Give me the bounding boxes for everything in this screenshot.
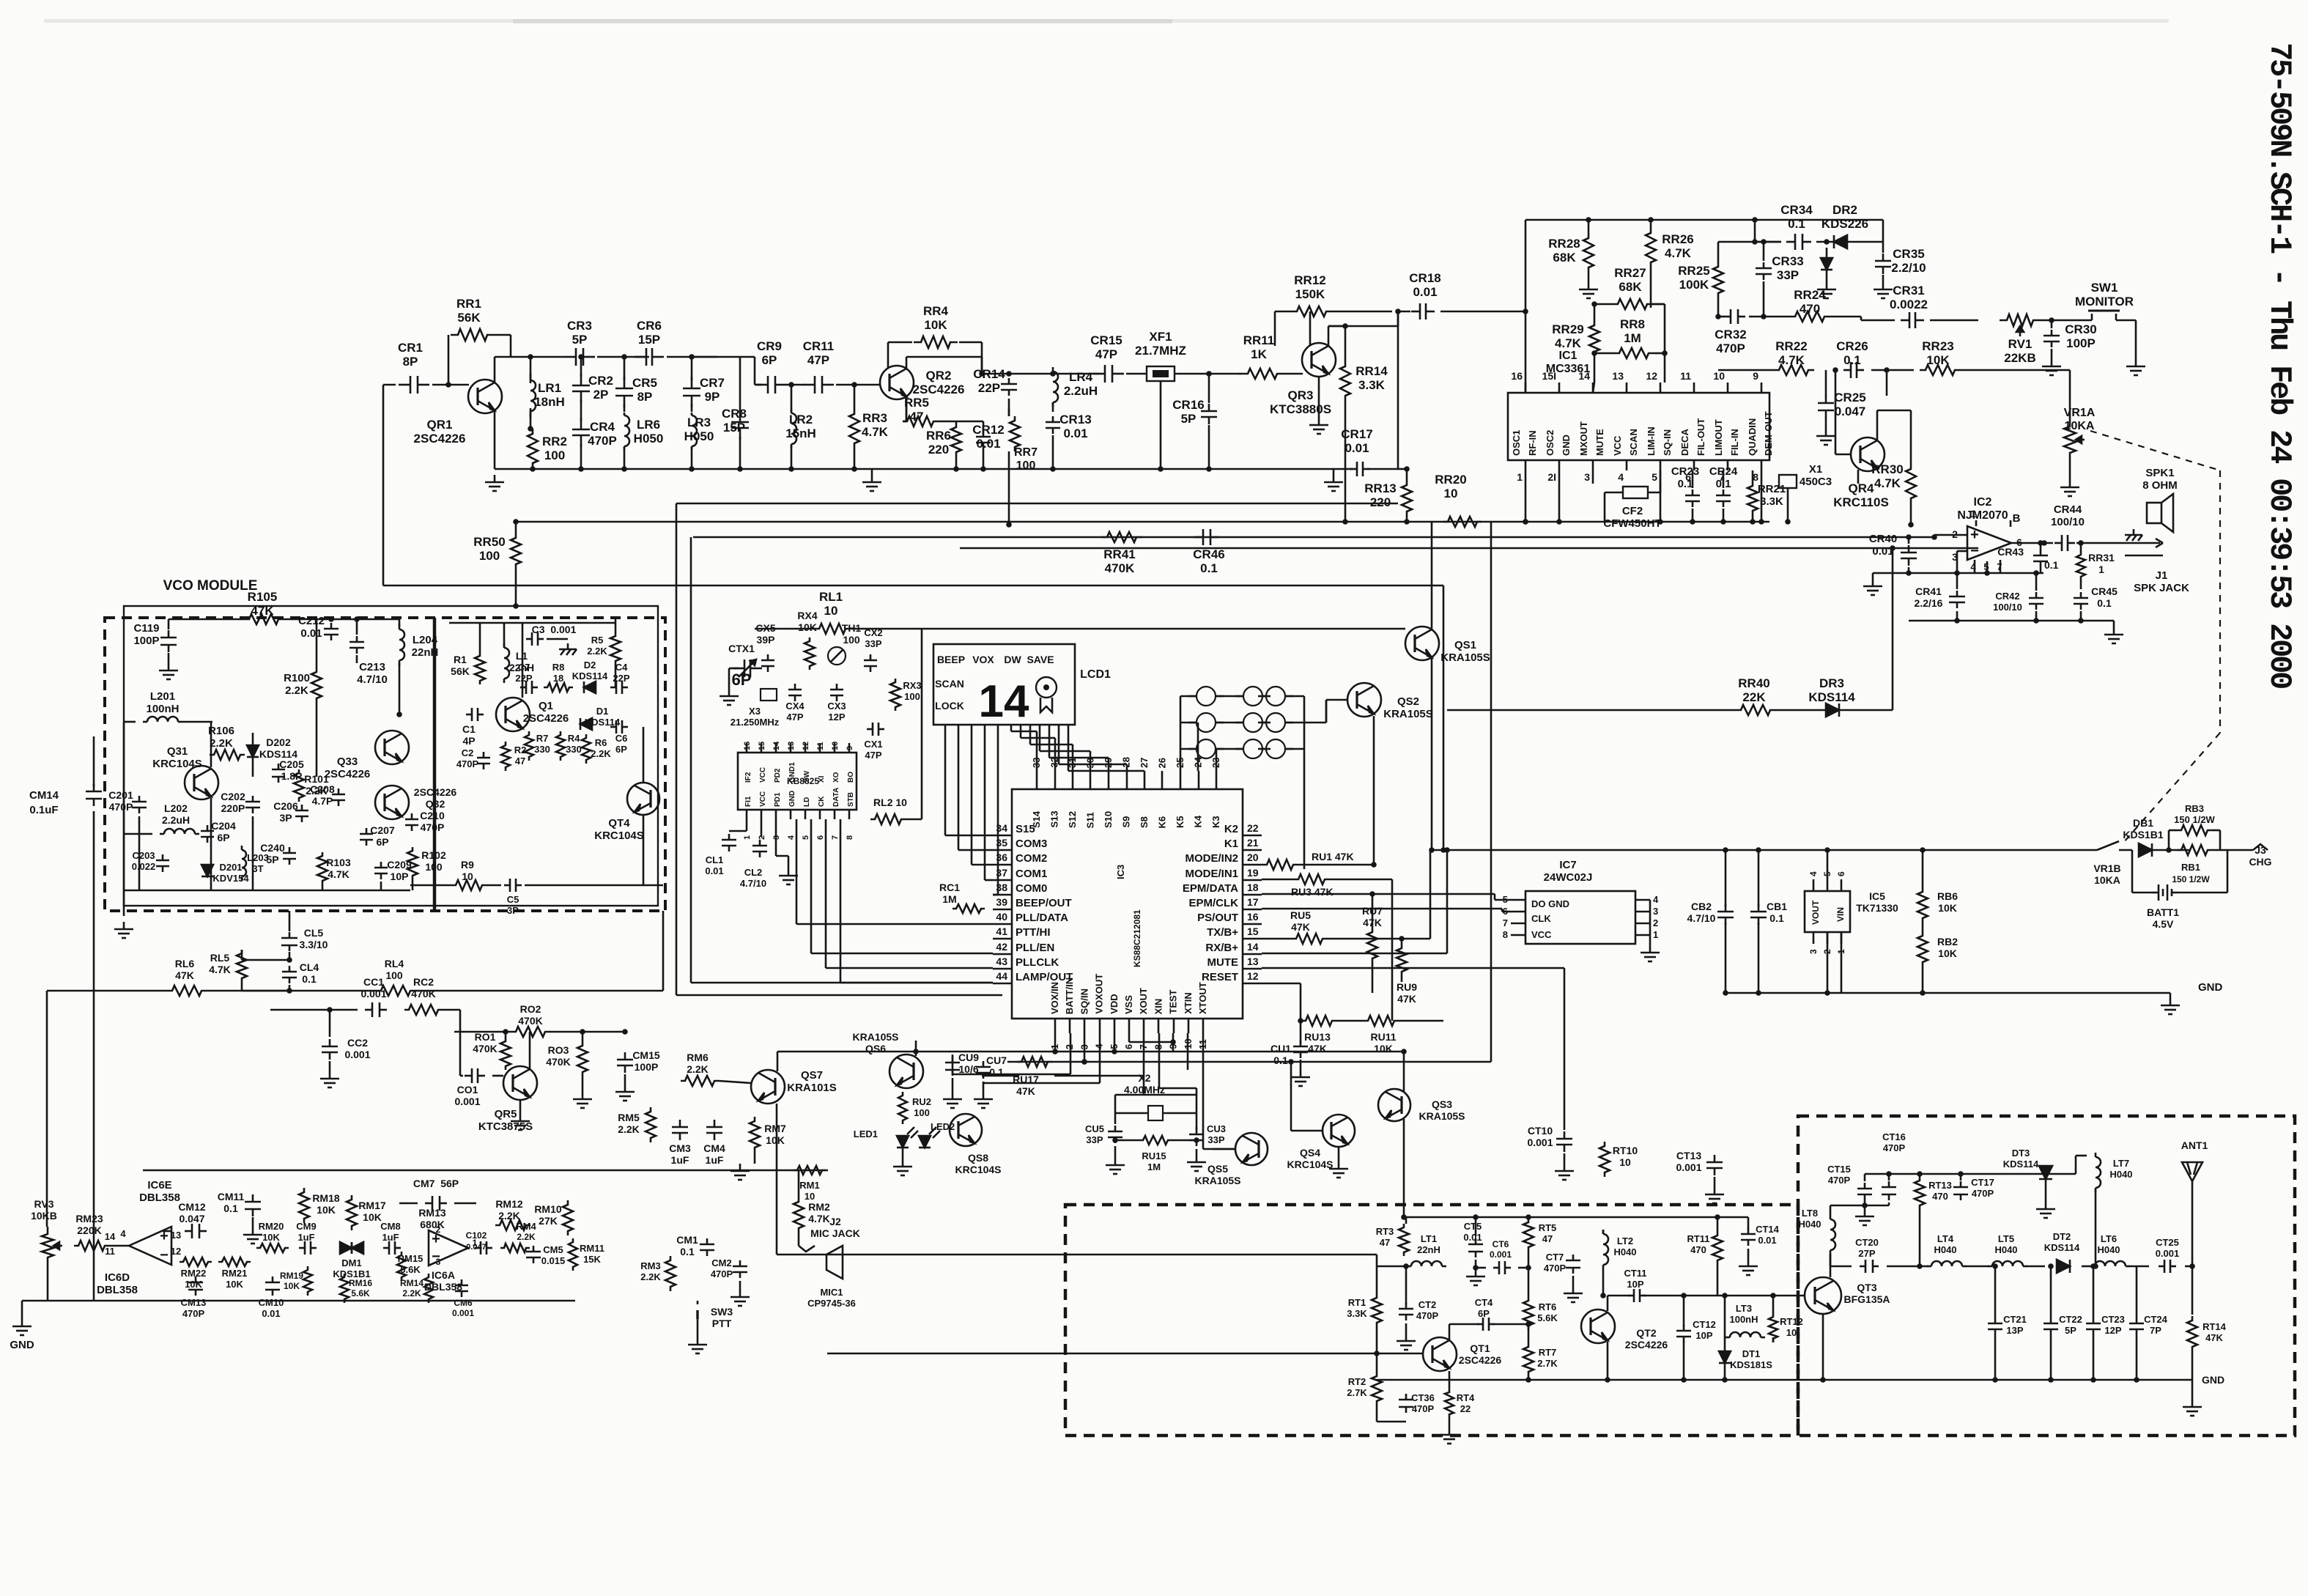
wire CT12 DT1 RT12 columns <box>1683 1296 1685 1326</box>
svg-text:RV1: RV1 <box>2008 337 2033 351</box>
svg-text:BEEP/OUT: BEEP/OUT <box>1016 897 1072 909</box>
svg-text:K2: K2 <box>1224 823 1238 835</box>
wire trunk y687 <box>676 503 1398 505</box>
svg-text:DB1: DB1 <box>2133 817 2153 829</box>
svg-text:GND: GND <box>2198 981 2223 994</box>
svg-text:L1: L1 <box>516 650 528 662</box>
svg-text:VR1A: VR1A <box>2064 407 2096 419</box>
svg-text:RESET: RESET <box>1202 971 1238 983</box>
svg-text:CT7: CT7 <box>1546 1252 1564 1263</box>
svg-text:KRC104S: KRC104S <box>152 758 202 770</box>
svg-text:2SC4226: 2SC4226 <box>1625 1339 1668 1351</box>
svg-text:21.7MHZ: 21.7MHZ <box>1135 344 1186 358</box>
svg-text:35: 35 <box>996 837 1007 849</box>
svg-text:RR14: RR14 <box>1355 364 1388 378</box>
svg-text:47: 47 <box>515 755 525 766</box>
wire long bus y733 <box>693 536 1934 539</box>
wire CC1 left <box>329 1010 331 1037</box>
svg-text:6P: 6P <box>762 353 777 367</box>
resistor RR31 <box>2076 551 2085 580</box>
capacitor CR6 <box>635 356 646 358</box>
wire Q31 emitter <box>210 798 212 890</box>
svg-text:Q33: Q33 <box>337 755 358 768</box>
IF2 pin 15 <box>761 743 763 753</box>
wire IC2 output <box>2011 542 2053 544</box>
svg-text:J3: J3 <box>2255 844 2266 856</box>
svg-text:0.01: 0.01 <box>262 1308 280 1319</box>
svg-text:100K: 100K <box>1679 278 1709 292</box>
resistor RL5 <box>237 950 247 982</box>
svg-text:4.7K: 4.7K <box>1555 336 1582 350</box>
svg-text:LR4: LR4 <box>1069 370 1093 384</box>
svg-text:10K: 10K <box>798 621 817 633</box>
resistor RU7 <box>1367 928 1377 963</box>
svg-text:18nH: 18nH <box>534 395 565 409</box>
svg-text:470P: 470P <box>1716 341 1745 355</box>
svg-text:47: 47 <box>910 410 924 424</box>
diode DR2 KDS226 <box>1834 235 1847 248</box>
svg-text:PD1: PD1 <box>774 792 782 807</box>
svg-text:0.001: 0.001 <box>452 1308 474 1318</box>
wires box A internals <box>1405 1217 1408 1224</box>
transistor QR2 2SC4226 <box>880 366 914 399</box>
wire IC2 bottom bus <box>1909 620 2114 622</box>
svg-text:3P: 3P <box>507 905 519 916</box>
wire trunk x923 down <box>676 503 678 995</box>
svg-text:CT13: CT13 <box>1676 1150 1701 1161</box>
capacitor CM13 <box>195 1277 197 1282</box>
wire PA output bus <box>1887 1266 1928 1268</box>
svg-text:10KA: 10KA <box>2065 420 2095 432</box>
resistor RR14 <box>1340 361 1350 402</box>
svg-text:47P: 47P <box>1095 347 1117 361</box>
wires IC1 bottom pins to bus y712 <box>1525 470 1527 522</box>
IC3 pin 4 VOXOUT <box>1099 1019 1101 1033</box>
resistor RX3 <box>890 679 900 711</box>
svg-text:VCO MODULE: VCO MODULE <box>163 578 258 594</box>
svg-text:47P: 47P <box>865 750 881 761</box>
resistor RR40 <box>1735 705 1776 715</box>
IC5 pin 5 <box>1827 879 1829 891</box>
crystal X1 450C3 <box>1779 475 1797 488</box>
svg-text:CT21: CT21 <box>2003 1314 2027 1325</box>
transistor QS8 KRC104S <box>950 1114 982 1146</box>
svg-text:IC6D: IC6D <box>105 1271 130 1284</box>
svg-text:10K: 10K <box>317 1204 336 1216</box>
svg-text:CM9: CM9 <box>296 1221 316 1232</box>
capacitor CM6 <box>461 1279 463 1285</box>
wire long bus y748 <box>960 547 1978 550</box>
svg-text:6P: 6P <box>732 670 752 689</box>
wire EPM/CLK to IC7 <box>1262 908 1502 910</box>
ground rail IC2 <box>1872 579 1874 586</box>
LED2 <box>919 1136 931 1148</box>
svg-text:100nH: 100nH <box>1729 1314 1758 1325</box>
svg-text:44: 44 <box>996 970 1007 982</box>
svg-text:220K: 220K <box>77 1224 101 1236</box>
svg-text:39P: 39P <box>757 634 775 646</box>
svg-text:QR1: QR1 <box>427 418 453 432</box>
svg-text:CC2: CC2 <box>347 1037 368 1049</box>
resistor RU15 <box>1139 1136 1172 1145</box>
ground QR3 <box>1318 418 1320 425</box>
svg-text:C212: C212 <box>298 615 325 627</box>
svg-text:C102: C102 <box>466 1230 487 1241</box>
svg-text:470P: 470P <box>1972 1188 1994 1199</box>
wire IC1 pin3 to y748 <box>1592 470 1594 484</box>
svg-text:COM2: COM2 <box>1016 852 1047 865</box>
resistor R103 <box>317 852 328 884</box>
svg-text:4.7K: 4.7K <box>328 868 349 880</box>
resistor RR25 <box>1713 262 1723 298</box>
resistor RT11 <box>1712 1232 1723 1264</box>
svg-text:VCC: VCC <box>759 767 767 783</box>
svg-text:RT4: RT4 <box>1457 1392 1475 1403</box>
svg-text:18: 18 <box>553 673 563 684</box>
svg-text:QR3: QR3 <box>1288 388 1314 402</box>
IC3 pin 6 VSS <box>1128 1019 1131 1033</box>
svg-text:KDV154: KDV154 <box>212 873 249 884</box>
svg-text:18: 18 <box>1247 882 1259 893</box>
svg-text:5: 5 <box>1503 894 1508 905</box>
resistor RR5 <box>903 416 938 426</box>
svg-text:CM2: CM2 <box>711 1257 731 1268</box>
svg-text:CR4: CR4 <box>590 420 615 434</box>
svg-text:RB6: RB6 <box>1937 890 1958 902</box>
svg-text:FIL-OUT: FIL-OUT <box>1695 418 1706 456</box>
svg-text:10: 10 <box>1786 1327 1797 1338</box>
svg-text:RX/B+: RX/B+ <box>1205 942 1238 954</box>
svg-text:SW1: SW1 <box>2091 281 2118 295</box>
svg-text:3.3K: 3.3K <box>1760 495 1783 508</box>
svg-text:14: 14 <box>105 1231 116 1242</box>
capacitor C209 <box>380 862 382 868</box>
svg-text:LT3: LT3 <box>1736 1303 1752 1314</box>
IC3 pin 1 VOX/IN <box>1054 1019 1057 1033</box>
IC1 pin 13 <box>1626 383 1628 393</box>
wire CT5 top <box>1475 1217 1477 1236</box>
svg-text:RX4: RX4 <box>797 610 817 621</box>
IC3 pin 2 BATT/IN <box>1069 1019 1071 1033</box>
capacitor CR43 <box>2040 550 2042 555</box>
svg-text:CR16: CR16 <box>1172 398 1204 412</box>
svg-text:RU11: RU11 <box>1370 1031 1396 1043</box>
svg-text:2SC4226: 2SC4226 <box>325 768 371 780</box>
svg-text:12P: 12P <box>2104 1325 2121 1336</box>
svg-text:100P: 100P <box>133 635 159 647</box>
svg-text:RR31: RR31 <box>2088 552 2115 564</box>
svg-text:RR24: RR24 <box>1794 288 1826 302</box>
IC1 pin 14 <box>1592 383 1594 393</box>
resistor R101 <box>294 769 304 802</box>
capacitor CM7 <box>425 1202 432 1205</box>
svg-text:47P: 47P <box>807 353 829 367</box>
transistor Q31 KRC104S <box>185 766 218 799</box>
svg-text:CT22: CT22 <box>2059 1314 2082 1325</box>
svg-text:RR28: RR28 <box>1548 237 1580 251</box>
wire QS2 emitter down to RU1 <box>1373 716 1375 865</box>
svg-text:CR35: CR35 <box>1893 247 1924 261</box>
wire CT14 top <box>1747 1217 1750 1230</box>
capacitor CT6 <box>1493 1267 1499 1269</box>
wire QR4 emitter <box>1857 470 1860 484</box>
svg-text:100: 100 <box>385 969 403 981</box>
svg-text:RR7: RR7 <box>1014 446 1038 459</box>
wire QS3 collector <box>1403 1052 1405 1092</box>
svg-text:220: 220 <box>928 443 949 457</box>
resistor RB3 <box>2177 825 2212 835</box>
resistor RR50 <box>511 533 521 569</box>
IC1 pin 10 <box>1727 383 1729 393</box>
svg-text:68K: 68K <box>1619 280 1642 294</box>
svg-text:RM5: RM5 <box>618 1112 640 1123</box>
svg-text:RR4: RR4 <box>923 304 949 318</box>
ground PA <box>2192 1400 2194 1407</box>
IC3 pin 9 TEST <box>1173 1019 1175 1033</box>
capacitor CU5 <box>1114 1126 1117 1131</box>
wire IF2 DATA to IC3 PLL/DATA <box>825 819 827 968</box>
inductor LT4 <box>1927 1266 1931 1268</box>
svg-text:10K: 10K <box>284 1281 300 1291</box>
svg-text:12: 12 <box>171 1246 181 1257</box>
svg-text:BEEP: BEEP <box>937 654 965 665</box>
resistor R7 <box>525 731 533 761</box>
capacitor CT24 <box>2136 1318 2138 1323</box>
capacitor CX5 <box>767 654 769 660</box>
svg-text:VSS: VSS <box>1123 995 1134 1014</box>
svg-text:47K: 47K <box>1016 1085 1035 1097</box>
resistor RM12 <box>495 1220 530 1230</box>
svg-text:+: + <box>1970 527 1979 543</box>
IC7 pin 8 <box>1511 934 1525 936</box>
capacitor C119 <box>168 630 170 638</box>
svg-text:4.7P: 4.7P <box>312 795 333 807</box>
svg-text:PLLCLK: PLLCLK <box>1016 956 1059 969</box>
wires LCD staircase to IC3 top pins <box>1010 725 1013 731</box>
IC3 pin 35 COM3 <box>993 849 1012 851</box>
transistor QS3 KRA105S <box>1378 1089 1410 1121</box>
inductor LT7 <box>2095 1153 2097 1157</box>
wire QT2 collector <box>1607 1296 1609 1311</box>
svg-text:H050: H050 <box>634 432 664 446</box>
resistor RM6 <box>681 1076 719 1086</box>
svg-text:1uF: 1uF <box>706 1154 724 1166</box>
capacitor CM1 <box>706 1238 709 1244</box>
capacitor CM4 <box>714 1120 716 1127</box>
svg-text:15I: 15I <box>1542 370 1556 382</box>
svg-text:CR42: CR42 <box>1995 591 2019 602</box>
wire QR1 collector up <box>494 357 496 383</box>
wire R9 C5 line <box>525 884 663 887</box>
svg-text:SCAN: SCAN <box>1628 429 1639 456</box>
wire IC2 ground rail y782 <box>1873 572 2043 575</box>
capacitor CX1 <box>867 728 873 731</box>
wire CR14 to RR7 <box>1008 409 1010 416</box>
svg-text:0.022: 0.022 <box>132 861 156 872</box>
svg-text:CM5: CM5 <box>543 1244 563 1255</box>
IC3 pin 32 S13 <box>1054 771 1057 789</box>
keypad switch circle r1c0 <box>1196 713 1216 732</box>
svg-text:5P: 5P <box>1181 412 1196 426</box>
svg-text:100P: 100P <box>2066 336 2096 350</box>
wire node CR6-CR7 <box>667 356 717 358</box>
IC7 pin 5 <box>1511 899 1525 901</box>
wire QR1 emitter down to ground <box>494 410 496 469</box>
capacitor CM3 <box>679 1120 681 1127</box>
svg-text:17: 17 <box>1247 896 1259 908</box>
svg-text:13P: 13P <box>2006 1325 2023 1336</box>
IC3 pin 44 LAMP/OUT <box>993 983 1012 985</box>
svg-text:CL4: CL4 <box>300 961 319 973</box>
inductor L201 <box>143 721 147 723</box>
svg-text:100: 100 <box>1016 459 1036 472</box>
inductor L203 <box>241 846 243 850</box>
resistor RR4 feedback <box>887 342 889 369</box>
svg-text:CX1: CX1 <box>864 739 882 750</box>
wire node to CR18 <box>1398 311 1410 313</box>
ground CT14 <box>1747 1259 1750 1266</box>
capacitor CR17 <box>1350 468 1357 470</box>
svg-text:RM7: RM7 <box>764 1123 786 1134</box>
svg-text:RR41: RR41 <box>1103 547 1135 561</box>
svg-text:CR32: CR32 <box>1715 328 1746 341</box>
svg-text:56K: 56K <box>457 311 481 325</box>
svg-text:33P: 33P <box>865 638 881 649</box>
svg-text:TEST: TEST <box>1168 989 1179 1013</box>
resistor RM21 <box>218 1257 251 1266</box>
svg-text:S11: S11 <box>1085 812 1096 828</box>
IC3 pin 26 K6 <box>1161 771 1164 789</box>
svg-text:RL5: RL5 <box>210 952 230 964</box>
svg-text:33P: 33P <box>1207 1134 1224 1145</box>
resistor RM10 <box>563 1200 573 1235</box>
wire QS2 base left <box>1326 699 1348 701</box>
svg-text:CLK: CLK <box>1531 913 1551 924</box>
wire IC2 plus input <box>1934 534 1968 536</box>
svg-text:12: 12 <box>1247 970 1259 982</box>
svg-text:PS/OUT: PS/OUT <box>1197 912 1238 924</box>
svg-text:X3: X3 <box>749 706 761 717</box>
svg-text:34: 34 <box>996 822 1007 834</box>
svg-text:IC6E: IC6E <box>147 1179 171 1192</box>
svg-text:CT17: CT17 <box>1971 1177 1994 1188</box>
resistor RM3 <box>665 1256 676 1291</box>
svg-text:4.7K: 4.7K <box>1778 353 1805 367</box>
capacitor CO1 <box>465 1075 472 1077</box>
svg-text:8P: 8P <box>403 355 418 369</box>
wires IC2 bottom pins <box>1974 560 1976 573</box>
ground CR30 <box>2051 359 2053 366</box>
capacitor CR12 <box>983 429 985 437</box>
svg-text:11: 11 <box>816 742 825 750</box>
svg-text:RR27: RR27 <box>1614 266 1646 280</box>
wire XTIN XTOUT to QS5 <box>1202 1033 1205 1149</box>
wire top bus to CR9 <box>740 356 755 358</box>
svg-text:CR14: CR14 <box>973 367 1005 381</box>
svg-text:22: 22 <box>1460 1403 1471 1414</box>
transistor QR1 2SC4226 <box>468 380 502 413</box>
svg-text:CR8: CR8 <box>722 407 747 421</box>
svg-text:8: 8 <box>846 835 854 840</box>
svg-text:GND: GND <box>788 791 796 807</box>
svg-text:0.01: 0.01 <box>976 437 1000 451</box>
transistor Q33 2SC4226 <box>375 731 409 764</box>
svg-text:DEM-OUT: DEM-OUT <box>1763 411 1774 456</box>
resistor RU2 <box>898 1092 907 1124</box>
capacitor CR1 <box>399 384 410 386</box>
wire QR2 node to CR15 <box>1018 373 1099 375</box>
svg-text:CT11: CT11 <box>1624 1268 1646 1279</box>
svg-text:0.01: 0.01 <box>1345 441 1369 455</box>
svg-text:LR2: LR2 <box>789 413 813 426</box>
svg-text:CR46: CR46 <box>1193 547 1224 561</box>
trim capacitor CTX1 <box>733 668 744 670</box>
capacitor CR16 <box>1208 404 1210 411</box>
diode DT3 <box>2039 1166 2052 1179</box>
wire VCO bottom drops <box>138 816 141 890</box>
power rail y1160 <box>1430 849 2097 851</box>
capacitor C4 <box>610 687 616 689</box>
svg-text:D202: D202 <box>266 736 291 748</box>
VCO module dashed box <box>105 618 665 911</box>
svg-text:J1: J1 <box>2156 569 2168 582</box>
svg-text:R8: R8 <box>552 662 565 673</box>
capacitor CR45 <box>2080 592 2082 598</box>
resistor RT3 <box>1399 1224 1409 1256</box>
svg-text:CU1: CU1 <box>1270 1043 1291 1054</box>
svg-text:QS5: QS5 <box>1207 1163 1228 1175</box>
wire CR17 node vertical x1908 <box>1367 468 1398 470</box>
IC3 pin 25 K5 <box>1180 771 1182 789</box>
capacitor C212 <box>330 623 333 629</box>
capacitor CU9 <box>952 1057 954 1063</box>
svg-text:22K: 22K <box>1742 690 1766 704</box>
svg-text:Q1: Q1 <box>539 700 553 712</box>
LED1 <box>897 1136 909 1148</box>
svg-text:S10: S10 <box>1103 811 1114 828</box>
svg-text:CR1: CR1 <box>398 341 423 355</box>
svg-text:220: 220 <box>1370 495 1391 509</box>
svg-text:1K: 1K <box>1251 347 1267 361</box>
svg-text:S8: S8 <box>1139 816 1150 828</box>
svg-text:RL4: RL4 <box>385 958 404 969</box>
svg-text:27P: 27P <box>1858 1248 1875 1259</box>
svg-text:B: B <box>2013 512 2021 525</box>
svg-text:10P: 10P <box>1627 1279 1643 1290</box>
svg-text:CT10: CT10 <box>1528 1125 1553 1137</box>
svg-text:0.1: 0.1 <box>1200 561 1218 575</box>
svg-text:Q31: Q31 <box>167 745 188 758</box>
resistor RM19 <box>303 1266 312 1296</box>
svg-text:DATA: DATA <box>832 788 840 807</box>
resistor RR11 <box>1242 369 1283 379</box>
svg-text:C203: C203 <box>132 850 155 861</box>
svg-text:4.7/10: 4.7/10 <box>1687 912 1716 924</box>
ground C3 slash <box>567 643 569 649</box>
wire top rail to CR34 <box>1754 220 1756 242</box>
svg-text:RM2: RM2 <box>808 1201 830 1213</box>
VCO module outer solid box <box>124 606 658 906</box>
resistor RM7 <box>750 1117 760 1152</box>
ground CR35 <box>1882 282 1885 289</box>
svg-text:10K: 10K <box>766 1134 785 1146</box>
svg-text:38: 38 <box>996 882 1007 893</box>
IC5 pin 4 <box>1813 879 1815 891</box>
svg-text:C5: C5 <box>507 894 519 905</box>
wire QT3 emitter <box>1822 1314 1824 1380</box>
IC5 TK71330 box <box>1805 891 1850 932</box>
svg-text:RM12: RM12 <box>495 1198 523 1210</box>
